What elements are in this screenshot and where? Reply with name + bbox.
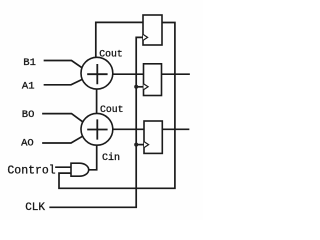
svg-text:A1: A1 xyxy=(22,80,35,92)
svg-text:Cin: Cin xyxy=(102,152,120,164)
svg-text:B1: B1 xyxy=(23,57,36,69)
svg-text:AO: AO xyxy=(21,138,34,150)
svg-text:Cout: Cout xyxy=(99,48,123,59)
svg-text:Control: Control xyxy=(7,164,55,177)
svg-text:BO: BO xyxy=(22,109,35,121)
svg-text:Cout: Cout xyxy=(100,104,124,115)
svg-text:CLK: CLK xyxy=(25,202,45,214)
